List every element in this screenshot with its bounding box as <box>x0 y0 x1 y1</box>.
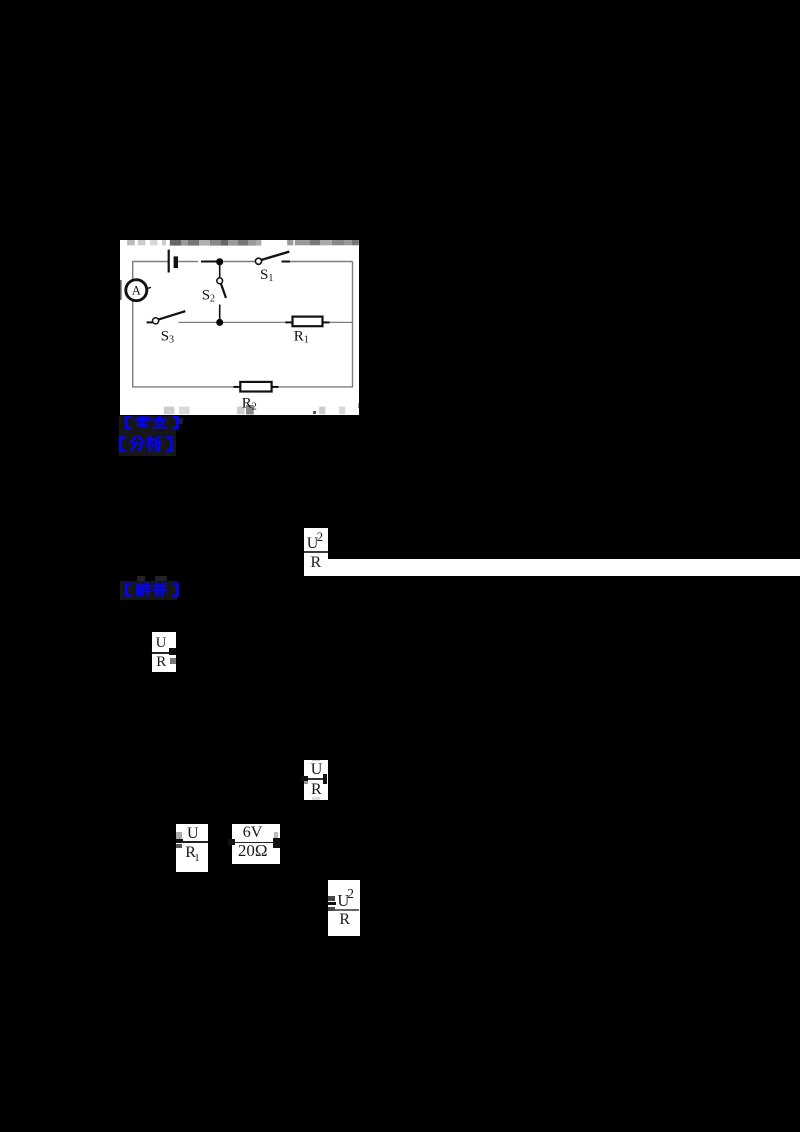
formula image P=U^2/R fraction <box>304 528 328 576</box>
circuit schematic image <box>120 240 359 415</box>
halo behind kaodian <box>119 416 176 432</box>
switch S3 <box>147 311 186 324</box>
scan artifact left edge <box>120 280 122 300</box>
scan noise band bottom <box>164 403 360 415</box>
formula image 6V/20ohm fraction <box>232 824 280 865</box>
svg-text:A: A <box>132 284 141 298</box>
battery <box>169 250 178 273</box>
halo behind jieda <box>120 581 177 600</box>
ghost blocks above jieda <box>137 576 145 581</box>
selection strip <box>304 559 800 576</box>
ammeter A <box>126 280 151 301</box>
wire top <box>132 261 352 263</box>
label kaodian (blue CJK drawn as vector strokes) <box>119 416 185 430</box>
formula image =U^2/R fraction <box>328 880 360 936</box>
formula image U/R1 fraction <box>176 824 208 872</box>
formula image I=U/R fraction <box>152 632 177 672</box>
label fenxi (blue CJK drawn as vector strokes) <box>113 436 179 453</box>
switch S1 <box>255 252 290 265</box>
wire top black segment <box>201 261 217 263</box>
navy ghost block after bracket <box>175 418 184 424</box>
wire outer loop <box>132 262 353 387</box>
halo behind fenxi <box>119 432 176 456</box>
switch S2 <box>217 265 226 320</box>
resistor R1 <box>286 317 330 327</box>
formula image I=U/R fraction second <box>304 760 328 800</box>
node junction middle <box>216 319 223 326</box>
scan noise band top <box>127 240 359 246</box>
node junction top <box>216 258 223 265</box>
resistor R2 <box>234 382 279 392</box>
label jieda (blue CJK drawn as vector strokes) <box>119 583 185 598</box>
wire middle <box>179 321 353 323</box>
